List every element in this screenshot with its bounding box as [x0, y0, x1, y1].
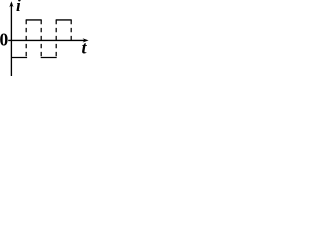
wave bottom segment 2: [41, 57, 57, 59]
axis t (horizontal), shaft: [8, 39, 86, 41]
wave top segment 1: [26, 19, 42, 21]
axis t arrowhead: [83, 38, 89, 42]
dashed transition at x=41: [40, 20, 42, 58]
background: [0, 0, 89, 76]
dashed transition at x=26: [25, 20, 27, 58]
svg-text:i: i: [16, 0, 21, 15]
wave top segment 2: [56, 19, 72, 21]
svg-text:0: 0: [0, 29, 9, 49]
wave bottom segment 1: [11, 57, 27, 59]
dashed transition at x=56: [55, 20, 57, 58]
axis i (vertical), shaft: [10, 3, 12, 76]
dashed transition at x=71: [70, 20, 72, 41]
axis i arrowhead: [9, 1, 13, 7]
